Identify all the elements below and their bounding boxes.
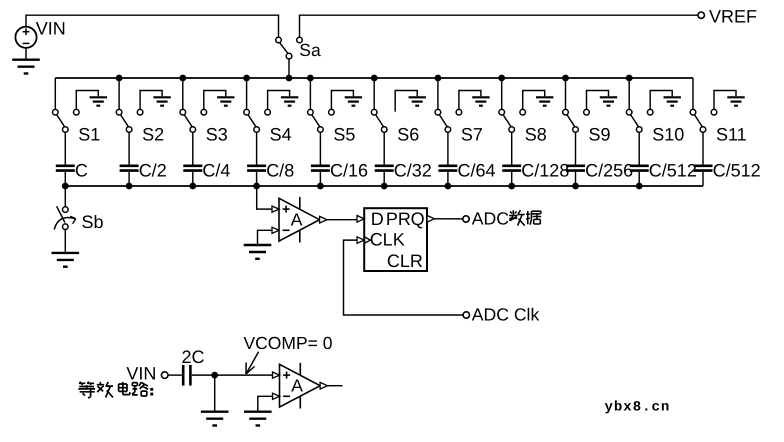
node bottom bus junction S3 xyxy=(189,183,196,190)
wire comparator output to D input xyxy=(327,219,357,221)
wire S7 branch from top bus xyxy=(437,78,439,109)
switch S4 xyxy=(244,109,260,132)
node top bus junction S7 xyxy=(435,75,442,82)
wire S3 branch from top bus xyxy=(182,78,184,109)
node bottom bus junction S6 xyxy=(381,183,388,190)
label S3 xyxy=(206,125,228,145)
svg-text:2C: 2C xyxy=(182,347,205,367)
switch S2 xyxy=(116,109,132,132)
wire equivalent - input to ground xyxy=(258,396,273,410)
wire S5 branch from top bus xyxy=(309,78,311,109)
svg-text:ybx8.cn: ybx8.cn xyxy=(605,400,671,416)
terminal VIN (equivalent) xyxy=(161,372,168,379)
switch S11 xyxy=(690,109,706,132)
pin CLK input arrowhead xyxy=(357,237,370,244)
wire S7 pole to capacitor xyxy=(447,132,449,164)
svg-text:C: C xyxy=(75,160,88,180)
node bottom bus junction S9 xyxy=(572,183,579,190)
capacitor 2C xyxy=(183,365,190,386)
svg-text:C/2: C/2 xyxy=(139,160,167,180)
wire capacitor C/32 to bottom bus xyxy=(383,172,385,186)
label C/4 xyxy=(202,160,230,180)
capacitor C/2 (S2) xyxy=(120,166,139,171)
node top bus junction S9 xyxy=(562,75,569,82)
svg-text:S2: S2 xyxy=(142,125,164,145)
wire S8 pole to capacitor xyxy=(511,132,513,164)
ground (equivalent - input) xyxy=(244,412,272,426)
label D xyxy=(371,209,384,229)
label PR xyxy=(386,209,411,229)
wire VIN terminal to capacitor 2C xyxy=(168,374,182,376)
switch S1 ground contact xyxy=(74,91,99,115)
wire S1 pole to capacitor xyxy=(64,132,66,164)
wire bottom bus xyxy=(65,185,703,187)
switch S10 xyxy=(626,109,642,132)
svg-text:Q: Q xyxy=(411,209,425,229)
svg-text:C/32: C/32 xyxy=(394,160,432,180)
capacitor C/8 (S4) xyxy=(247,166,266,171)
wire Sa pole to top bus xyxy=(288,59,290,78)
ground (Sb) xyxy=(52,253,80,267)
wire S10 branch from top bus xyxy=(628,78,630,109)
label 据 (data char 2) xyxy=(526,211,541,225)
svg-text:C/16: C/16 xyxy=(330,160,368,180)
svg-text:VIN: VIN xyxy=(36,19,66,39)
ground (S7) xyxy=(472,97,489,105)
terminal VREF xyxy=(698,12,704,18)
op-amp comparator A (equivalent) xyxy=(273,363,328,409)
wire S10 pole to capacitor xyxy=(638,132,640,164)
wire capacitor C to bottom bus xyxy=(64,172,66,186)
label S7 xyxy=(461,125,483,145)
svg-text:S4: S4 xyxy=(270,125,292,145)
switch S7 xyxy=(435,109,451,132)
wire ADC Clk to CLK input xyxy=(344,240,464,315)
svg-text:C/8: C/8 xyxy=(266,160,294,180)
wire S9 branch from top bus xyxy=(565,78,567,109)
wire S3 pole to capacitor xyxy=(192,132,194,164)
pin D input arrowhead xyxy=(357,216,364,223)
switch S6 ground contact xyxy=(395,91,417,112)
node Sa-bus junction xyxy=(286,75,293,82)
label S11 xyxy=(716,125,747,145)
svg-text:S5: S5 xyxy=(333,125,355,145)
wire capacitor 2C to op-amp + input xyxy=(192,374,273,376)
switch S3 xyxy=(180,109,196,132)
wire VIN source to ground xyxy=(25,48,27,59)
watermark ybx8.cn xyxy=(605,400,671,416)
label VIN xyxy=(36,19,66,39)
label S5 xyxy=(333,125,355,145)
label C/512 xyxy=(713,160,761,180)
label ADC Clk xyxy=(472,304,540,324)
wire capacitor C/64 to bottom bus xyxy=(447,172,449,186)
ground (S5) xyxy=(345,97,362,105)
switch S3 ground contact xyxy=(201,91,226,115)
node top bus junction S10 xyxy=(626,75,633,82)
svg-text:CLR: CLR xyxy=(387,251,423,271)
wire comparator - input xyxy=(258,230,273,243)
ground (S9) xyxy=(600,97,617,105)
capacitor C (S1) xyxy=(56,166,75,171)
svg-text:S11: S11 xyxy=(716,125,747,145)
label 等效电路： (equivalent circuit) xyxy=(78,382,153,399)
label 数 (data char 1) xyxy=(509,210,525,225)
label VREF xyxy=(709,7,757,27)
op-amp comparator U1 A xyxy=(272,197,327,243)
svg-text:C/64: C/64 xyxy=(458,160,496,180)
wire bottom bus to Sb xyxy=(64,186,66,207)
label S10 xyxy=(652,125,684,145)
label VCOMP= 0 xyxy=(244,333,333,353)
svg-text:S9: S9 xyxy=(589,125,611,145)
svg-text:Sb: Sb xyxy=(82,212,104,232)
switch S5 ground contact xyxy=(329,91,354,115)
svg-text:VIN: VIN xyxy=(126,363,156,383)
wire S4 pole to capacitor xyxy=(256,132,258,164)
switch S4 ground contact xyxy=(265,91,290,115)
label CLK xyxy=(370,230,405,250)
switch S9 ground contact xyxy=(584,91,609,115)
label Q xyxy=(411,209,425,229)
wire S9 pole to capacitor xyxy=(575,132,577,164)
wire capacitor C/2 to bottom bus xyxy=(128,172,130,186)
svg-text:PR: PR xyxy=(386,209,411,229)
wire VREF rail xyxy=(300,15,699,37)
node top bus junction S4 xyxy=(243,75,250,82)
wire capacitor C/8 to bottom bus xyxy=(256,172,258,186)
wire S6 pole to capacitor xyxy=(383,132,385,164)
wire Sb to ground xyxy=(64,230,66,252)
label S2 xyxy=(142,125,164,145)
switch S7 ground contact xyxy=(456,91,481,115)
svg-text:ADC Clk: ADC Clk xyxy=(472,304,540,324)
ground (S6) xyxy=(409,97,426,105)
wire S2 branch from top bus xyxy=(118,78,120,109)
label VIN (equivalent) xyxy=(126,363,156,383)
capacitor C/32 (S6) xyxy=(375,166,394,171)
wire top bus xyxy=(55,77,693,79)
capacitor C/256 (S9) xyxy=(566,166,585,171)
wire junction to ground xyxy=(214,375,216,410)
svg-text:VCOMP= 0: VCOMP= 0 xyxy=(244,333,333,353)
capacitor C/128 (S8) xyxy=(502,166,521,171)
switch Sb arrow xyxy=(54,216,76,229)
capacitor C/4 (S3) xyxy=(183,166,202,171)
wire S4 branch from top bus xyxy=(246,78,248,109)
svg-text:CLK: CLK xyxy=(370,230,405,250)
switch S2 ground contact xyxy=(137,91,162,115)
label S9 xyxy=(589,125,611,145)
wire S2 pole to capacitor xyxy=(128,132,130,164)
wire S6 branch from top bus xyxy=(373,78,375,109)
pin Q output arrowhead xyxy=(427,216,434,223)
label C/32 xyxy=(394,160,432,180)
wire equivalent output xyxy=(328,385,343,387)
capacitor C/512 (S11) xyxy=(694,166,713,171)
switch S1 xyxy=(53,109,69,132)
wire capacitor C/4 to bottom bus xyxy=(192,172,194,186)
svg-text:C/4: C/4 xyxy=(202,160,230,180)
terminal ADC data xyxy=(463,216,469,222)
ground (S2) xyxy=(153,97,170,105)
svg-text:C/512: C/512 xyxy=(649,160,697,180)
terminal ADC Clk xyxy=(463,312,469,318)
wire Q to ADC data terminal xyxy=(434,218,462,220)
wire capacitor C/512 to bottom bus xyxy=(702,172,704,186)
node top bus junction S3 xyxy=(179,75,186,82)
ground (S11) xyxy=(727,97,744,105)
svg-text:ADC: ADC xyxy=(472,208,509,228)
node bottom bus junction S4 xyxy=(253,183,260,190)
ground (S4) xyxy=(281,97,298,105)
svg-text:S6: S6 xyxy=(397,125,419,145)
label S6 xyxy=(397,125,419,145)
node bottom bus junction S10 xyxy=(636,183,643,190)
wire capacitor C/512 to bottom bus xyxy=(638,172,640,186)
svg-text:A: A xyxy=(291,375,303,395)
label S8 xyxy=(525,125,547,145)
capacitor C/64 (S7) xyxy=(438,166,457,171)
node bottom bus junction S8 xyxy=(508,183,515,190)
svg-text:D: D xyxy=(371,209,384,229)
label Sa xyxy=(299,40,321,60)
ground (VIN source) xyxy=(12,60,40,74)
node bottom bus junction S2 xyxy=(126,183,133,190)
switch Sa xyxy=(276,37,303,59)
node bottom bus junction S5 xyxy=(317,183,324,190)
label C xyxy=(75,160,88,180)
wire S5 pole to capacitor xyxy=(319,132,321,164)
wire S1 branch from top bus xyxy=(54,78,56,109)
svg-text:C/512: C/512 xyxy=(713,160,761,180)
ground (2C node) xyxy=(201,412,229,426)
label S4 xyxy=(270,125,292,145)
D flip-flop U2 xyxy=(364,208,427,271)
switch S9 xyxy=(563,109,579,132)
ground (S8) xyxy=(536,97,553,105)
svg-text:S10: S10 xyxy=(652,125,684,145)
node bottom bus junction S1 xyxy=(62,183,69,190)
switch Sb xyxy=(57,206,69,229)
ground (comparator - input) xyxy=(244,245,272,259)
node bottom bus junction S7 xyxy=(445,183,452,190)
ground (S10) xyxy=(664,97,681,105)
svg-text:S3: S3 xyxy=(206,125,228,145)
capacitor C/16 (S5) xyxy=(311,166,330,171)
svg-text:S8: S8 xyxy=(525,125,547,145)
wire capacitor C/16 to bottom bus xyxy=(319,172,321,186)
node top bus junction S8 xyxy=(498,75,505,82)
label Sb xyxy=(82,212,104,232)
label C/16 xyxy=(330,160,368,180)
label C/256 xyxy=(585,160,633,180)
svg-text:S7: S7 xyxy=(461,125,483,145)
svg-text:A: A xyxy=(291,209,303,229)
label C/2 xyxy=(139,160,167,180)
svg-text:C/256: C/256 xyxy=(585,160,633,180)
wire capacitor C/128 to bottom bus xyxy=(511,172,513,186)
voltage source VIN xyxy=(15,27,36,48)
ground (S3) xyxy=(217,97,234,105)
label C/64 xyxy=(458,160,496,180)
wire S11 branch from top bus xyxy=(692,78,694,109)
node top bus junction S5 xyxy=(307,75,314,82)
switch S8 xyxy=(499,109,515,132)
switch S8 ground contact xyxy=(520,91,545,115)
node top bus junction S6 xyxy=(371,75,378,82)
capacitor C/512 (S10) xyxy=(630,166,649,171)
label ADC (data) xyxy=(472,208,509,228)
wire S11 pole to capacitor xyxy=(702,132,704,164)
label S1 xyxy=(78,125,100,145)
wire VIN rail to switch Sa xyxy=(26,15,279,37)
label CLR xyxy=(387,251,423,271)
wire capacitor C/256 to bottom bus xyxy=(575,172,577,186)
annotation arrow VCOMP xyxy=(246,352,259,374)
label C/512 xyxy=(649,160,697,180)
switch S10 ground contact xyxy=(647,91,672,115)
node top bus junction S2 xyxy=(116,75,123,82)
svg-text:VREF: VREF xyxy=(709,7,757,27)
wire S8 branch from top bus xyxy=(501,78,503,109)
svg-text:Sa: Sa xyxy=(299,40,321,60)
svg-text:S1: S1 xyxy=(78,125,100,145)
switch S6 xyxy=(371,109,387,132)
switch S11 ground contact xyxy=(711,91,736,115)
ground (S1) xyxy=(90,97,107,105)
switch S5 xyxy=(308,109,324,132)
svg-text:C/128: C/128 xyxy=(521,160,569,180)
label 2C xyxy=(182,347,205,367)
node 2C / ground junction xyxy=(211,372,218,379)
label C/128 xyxy=(521,160,569,180)
label C/8 xyxy=(266,160,294,180)
wire bottom bus to comparator + input xyxy=(257,186,272,209)
